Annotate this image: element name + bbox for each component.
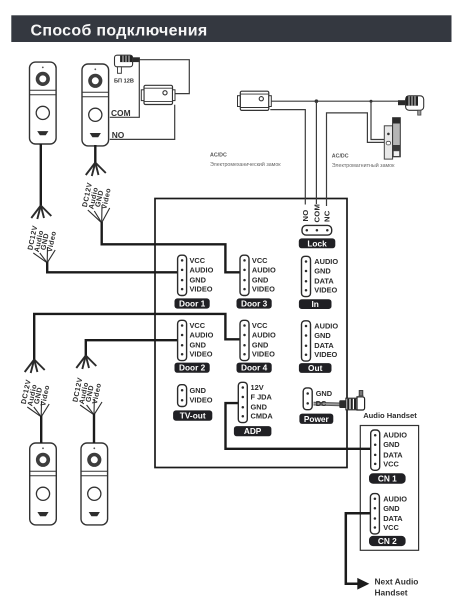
tag Door 2 xyxy=(175,363,210,373)
svg-text:AUDIO: AUDIO xyxy=(252,265,276,274)
svg-text:ADP: ADP xyxy=(244,426,262,436)
electromagnetic lock xyxy=(384,118,400,159)
svg-text:Электромеханический замок: Электромеханический замок xyxy=(210,161,281,168)
svg-text:DATA: DATA xyxy=(314,341,334,350)
svg-text:DATA: DATA xyxy=(314,277,334,286)
connector TV-out xyxy=(178,385,187,407)
svg-text:In: In xyxy=(312,299,319,309)
DC plug xyxy=(339,391,364,411)
svg-text:CMDA: CMDA xyxy=(251,412,274,421)
fan1 spread xyxy=(31,206,51,220)
connector Door 2 xyxy=(178,320,187,360)
junction dot COM node xyxy=(315,99,319,103)
svg-text:GND: GND xyxy=(190,386,207,395)
svg-text:Out: Out xyxy=(308,363,323,373)
fan2 converge xyxy=(88,205,110,223)
svg-text:Lock: Lock xyxy=(307,238,327,248)
svg-text:AUDIO: AUDIO xyxy=(252,331,276,340)
wire P2 to fan2 xyxy=(94,145,96,164)
wire L2 to adapter2 xyxy=(271,100,400,102)
connector Power xyxy=(303,388,312,410)
fan3 converge xyxy=(27,401,49,417)
svg-text:DATA: DATA xyxy=(383,450,403,459)
svg-text:GND: GND xyxy=(252,341,269,350)
Lock connector xyxy=(302,225,332,235)
svg-text:VCC: VCC xyxy=(252,256,268,265)
svg-text:VIDEO: VIDEO xyxy=(314,286,337,295)
svg-text:AUDIO: AUDIO xyxy=(190,331,214,340)
connector Door 4 xyxy=(240,320,249,360)
svg-text:GND: GND xyxy=(383,504,400,513)
wire power to maglock xyxy=(371,101,384,139)
connector ADP xyxy=(238,382,247,422)
trunk wire to fan3 (Door4 feed) xyxy=(34,314,240,360)
svg-text:GND: GND xyxy=(252,276,269,285)
connector Out xyxy=(302,321,311,361)
tag Lock xyxy=(299,238,336,248)
svg-text:VIDEO: VIDEO xyxy=(190,396,213,405)
svg-text:БП 12В: БП 12В xyxy=(114,79,134,85)
junction dot maglock node xyxy=(370,100,373,103)
wire ADP to CN1 xyxy=(226,403,372,449)
wire fan1 to Door1 xyxy=(47,262,178,272)
tag Door 1 xyxy=(175,298,210,308)
svg-text:VIDEO: VIDEO xyxy=(252,285,275,294)
wire fan3 to P3 xyxy=(40,416,42,443)
AC/DC adapter2 xyxy=(398,96,424,115)
wire P1 to fan1 xyxy=(40,144,42,207)
svg-text:VCC: VCC xyxy=(383,459,399,468)
svg-text:Power: Power xyxy=(304,414,330,424)
svg-text:VCC: VCC xyxy=(252,321,268,330)
connector Door 3 xyxy=(240,255,249,295)
svg-text:Электромагнитный замок: Электромагнитный замок xyxy=(332,162,395,169)
wire fan4 to P4 xyxy=(93,414,95,443)
svg-text:GND: GND xyxy=(316,389,333,398)
connector CN2 xyxy=(370,494,379,534)
door panel P3 xyxy=(30,443,57,525)
svg-text:NO: NO xyxy=(301,209,310,221)
svg-text:VCC: VCC xyxy=(190,321,206,330)
tag Door 4 xyxy=(237,363,272,373)
fan3 spread xyxy=(25,360,45,374)
electromechanical lock L2 xyxy=(238,91,272,110)
wire fan2 to Door3 xyxy=(102,222,241,272)
electromechanical lock L1 xyxy=(141,85,175,104)
svg-text:CN 2: CN 2 xyxy=(378,536,397,546)
fan3 labels DC12V Audio GND Video xyxy=(19,378,52,406)
wire NO to Lock connector xyxy=(270,110,305,205)
svg-text:GND: GND xyxy=(251,403,268,412)
svg-text:TV-out: TV-out xyxy=(180,411,206,421)
svg-text:GND: GND xyxy=(314,267,331,276)
svg-text:GND: GND xyxy=(383,440,400,449)
connector In xyxy=(302,256,311,296)
adapter BP12V xyxy=(115,55,140,73)
trunk wire to fan4 (Door2 feed) xyxy=(86,340,178,356)
door panel P2 xyxy=(82,64,109,146)
monitor box xyxy=(155,199,347,468)
svg-text:12V: 12V xyxy=(251,383,264,392)
svg-text:VCC: VCC xyxy=(190,256,206,265)
svg-text:COM: COM xyxy=(111,108,131,118)
wire NO xyxy=(110,105,175,140)
connector Door 1 xyxy=(178,255,187,295)
svg-text:VIDEO: VIDEO xyxy=(190,285,213,294)
labels NO COM NC rotated xyxy=(301,204,332,223)
svg-text:Door 3: Door 3 xyxy=(241,299,268,309)
DC plug cable xyxy=(314,402,341,407)
tag Out xyxy=(299,363,332,373)
svg-text:AUDIO: AUDIO xyxy=(314,322,338,331)
wire COM to Lock connector xyxy=(315,101,317,204)
svg-text:COM: COM xyxy=(312,204,321,223)
svg-text:DC: DC xyxy=(316,399,327,408)
connector CN1 xyxy=(371,430,380,470)
svg-text:F JDA: F JDA xyxy=(251,393,273,402)
svg-text:GND: GND xyxy=(190,276,207,285)
svg-text:Handset: Handset xyxy=(375,588,408,598)
title bar xyxy=(11,15,451,42)
svg-text:Audio Handset: Audio Handset xyxy=(363,411,417,420)
wire adapter to lock L1 xyxy=(140,60,190,94)
fan1 labels DC12V Audio GND Video xyxy=(25,224,58,252)
svg-text:NO: NO xyxy=(112,130,125,140)
svg-text:Door 1: Door 1 xyxy=(179,299,206,309)
fan4 converge xyxy=(80,399,102,415)
tag ADP xyxy=(234,426,272,436)
svg-text:VIDEO: VIDEO xyxy=(314,350,337,359)
svg-text:VIDEO: VIDEO xyxy=(252,350,275,359)
svg-text:VCC: VCC xyxy=(383,523,399,532)
svg-text:VIDEO: VIDEO xyxy=(190,350,213,359)
tag Door 3 xyxy=(237,298,272,308)
svg-text:DATA: DATA xyxy=(383,514,403,523)
tag CN 1 xyxy=(369,473,406,483)
wire COM xyxy=(110,61,140,118)
svg-text:GND: GND xyxy=(190,341,207,350)
tag CN 2 xyxy=(369,536,406,546)
svg-text:Door 2: Door 2 xyxy=(179,363,206,373)
handset box xyxy=(360,426,418,551)
svg-text:AC/DC: AC/DC xyxy=(332,154,349,160)
tag Power xyxy=(299,414,333,424)
svg-text:AUDIO: AUDIO xyxy=(383,494,407,503)
svg-text:Next Audio: Next Audio xyxy=(375,576,419,586)
wire CN2 to next handset xyxy=(346,513,371,584)
svg-text:AC/DC: AC/DC xyxy=(210,153,227,159)
fan2 spread xyxy=(86,163,106,177)
fan4 labels DC12V Audio GND Video xyxy=(70,376,103,404)
svg-text:AUDIO: AUDIO xyxy=(314,257,338,266)
fan4 spread xyxy=(76,356,96,370)
door panel P1 xyxy=(30,62,57,144)
tag In xyxy=(299,299,332,309)
svg-text:GND: GND xyxy=(314,331,331,340)
svg-text:Door 4: Door 4 xyxy=(241,363,268,373)
svg-text:Способ подключения: Способ подключения xyxy=(31,22,208,39)
wire NC to maglock xyxy=(327,113,385,206)
tag TV-out xyxy=(173,410,212,420)
svg-text:CN 1: CN 1 xyxy=(378,474,397,484)
fan2 labels DC12V Audio GND Video xyxy=(80,181,113,209)
svg-text:AUDIO: AUDIO xyxy=(190,265,214,274)
svg-text:NC: NC xyxy=(323,210,332,222)
fan1 converge xyxy=(33,247,55,263)
svg-text:AUDIO: AUDIO xyxy=(383,431,407,440)
door panel P4 xyxy=(81,443,108,525)
arrowhead next handset xyxy=(357,578,369,590)
